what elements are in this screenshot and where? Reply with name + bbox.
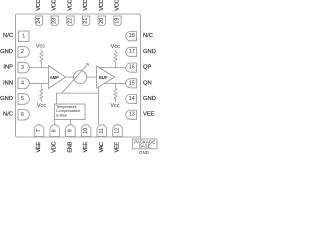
N/C label pin 1	[3, 33, 13, 39]
wire INN pin4 to AMP	[30, 82, 49, 84]
svg-text:GND: GND	[0, 49, 13, 55]
pin 24	[35, 16, 42, 26]
op-amp AMP	[48, 66, 65, 89]
wire QN BUF to pin15	[105, 82, 126, 84]
svg-text:VEE: VEE	[115, 142, 121, 153]
VEE label pin 7	[36, 142, 42, 153]
pin 20	[98, 16, 105, 26]
svg-text:4: 4	[21, 81, 24, 87]
VCC label pin 19	[115, 0, 121, 11]
resistor upper-left	[40, 50, 43, 68]
wire VAC pin11 to BUF	[97, 87, 99, 125]
VCC label pin 20	[99, 0, 105, 11]
pin 1	[19, 31, 30, 42]
svg-text:GND: GND	[143, 96, 156, 102]
svg-text:18: 18	[129, 33, 135, 39]
pin 12	[113, 125, 123, 137]
GND label pin 5	[0, 96, 13, 102]
wire temp box to pin9	[69, 120, 71, 125]
svg-text:VCC: VCC	[67, 0, 73, 11]
VCC label pin 24	[36, 0, 42, 11]
pin 11	[97, 125, 107, 137]
svg-text:VCC: VCC	[99, 0, 105, 11]
VCC label pin 21	[83, 0, 89, 11]
pin 21	[82, 16, 89, 26]
VEE label pin 10	[83, 142, 89, 153]
pin 19	[114, 16, 121, 26]
svg-text:16: 16	[129, 65, 135, 71]
pin 5	[18, 94, 29, 105]
QP label pin 16	[143, 65, 152, 71]
resistor upper-right	[114, 50, 117, 68]
Vcc label upper-left	[36, 44, 46, 50]
GND label pin 14	[143, 96, 156, 102]
VDC label pin 8	[52, 142, 58, 153]
svg-text:N/C: N/C	[3, 112, 13, 118]
pin 9	[66, 125, 76, 137]
pin 22	[67, 16, 74, 26]
svg-text:VEE: VEE	[36, 142, 42, 153]
wire control from temp box up	[57, 93, 99, 104]
svg-text:QN: QN	[143, 80, 152, 86]
svg-text:2: 2	[21, 49, 24, 55]
svg-text:14: 14	[129, 96, 135, 102]
svg-text:15: 15	[129, 80, 135, 86]
svg-text:Vcc: Vcc	[36, 44, 46, 50]
svg-text:GND: GND	[0, 96, 13, 102]
package base box	[133, 139, 158, 149]
svg-text:GND: GND	[139, 150, 149, 155]
pin 6	[18, 109, 29, 120]
svg-text:ENB: ENB	[67, 141, 73, 152]
svg-text:N/C: N/C	[143, 33, 153, 39]
pin 18	[126, 32, 137, 41]
wire temp box to pin8	[54, 120, 56, 125]
svg-text:19: 19	[115, 18, 121, 24]
svg-text:21: 21	[83, 18, 89, 24]
svg-text:VEE: VEE	[143, 112, 155, 118]
svg-text:VCC: VCC	[52, 0, 58, 11]
N/C label pin 18	[143, 33, 153, 39]
svg-text:VCC: VCC	[115, 0, 121, 11]
svg-text:10: 10	[83, 128, 89, 134]
svg-text:VDC: VDC	[52, 142, 58, 153]
GND label pin 2	[0, 49, 13, 55]
Vcc label lower-left	[37, 103, 47, 109]
attenuator circle	[74, 71, 87, 84]
svg-text:Vcc: Vcc	[110, 103, 120, 109]
wire INP pin3 to AMP	[30, 67, 49, 69]
VEE label pin 12	[115, 142, 121, 153]
svg-text:BASE: BASE	[139, 144, 151, 149]
pin 15	[126, 79, 137, 88]
svg-text:Vcc: Vcc	[111, 44, 121, 50]
svg-text:& Bias: & Bias	[56, 113, 67, 117]
ENB label pin 9	[67, 141, 73, 152]
wire AMP to attenuator	[66, 76, 74, 78]
wire attenuator to BUF	[87, 76, 97, 78]
svg-text:24: 24	[36, 18, 42, 24]
svg-text:7: 7	[36, 129, 42, 132]
svg-text:23: 23	[52, 18, 58, 24]
GND label package base	[139, 150, 149, 155]
INN label pin 4	[3, 80, 13, 86]
package outline	[16, 14, 141, 137]
svg-text:VEE: VEE	[83, 142, 89, 153]
svg-text:20: 20	[99, 18, 105, 24]
pin 17	[126, 47, 137, 56]
INP label pin 3	[3, 65, 13, 71]
svg-text:Vcc: Vcc	[37, 103, 47, 109]
resistor lower-right	[114, 83, 117, 102]
svg-text:VAC: VAC	[99, 142, 105, 153]
wire package corner to package base box	[140, 137, 142, 139]
svg-text:VCC: VCC	[83, 0, 89, 11]
pin 14	[126, 94, 137, 103]
QN label pin 15	[143, 80, 152, 86]
svg-text:GND: GND	[143, 49, 156, 55]
pin 2	[18, 47, 29, 58]
svg-text:5: 5	[21, 96, 24, 102]
svg-text:INN: INN	[3, 80, 13, 86]
svg-text:QP: QP	[143, 65, 152, 71]
attenuator arrow	[62, 64, 89, 93]
VCC label pin 23	[52, 0, 58, 11]
pin 3	[18, 62, 29, 73]
pin 10	[81, 125, 91, 137]
svg-text:1: 1	[22, 34, 25, 40]
pin 13	[126, 110, 137, 119]
pin 4	[18, 78, 29, 89]
svg-text:3: 3	[21, 65, 24, 71]
pin 8	[50, 125, 60, 137]
VAC label pin 11	[99, 142, 105, 153]
pin 23	[51, 16, 58, 26]
svg-text:22: 22	[67, 18, 73, 24]
wire QP BUF to pin16	[99, 67, 125, 69]
svg-text:AMP: AMP	[50, 75, 60, 80]
svg-text:12: 12	[115, 128, 121, 134]
resistor lower-left	[40, 83, 43, 102]
GND label pin 17	[143, 49, 156, 55]
N/C label pin 6	[3, 112, 13, 118]
op-amp BUF	[97, 66, 115, 88]
Vcc label lower-right	[110, 103, 120, 109]
VEE label pin 13	[143, 112, 155, 118]
VCC label pin 22	[67, 0, 73, 11]
svg-text:BUF: BUF	[99, 75, 108, 80]
pin 16	[126, 63, 137, 72]
svg-text:N/C: N/C	[3, 33, 13, 39]
svg-text:17: 17	[129, 49, 135, 55]
svg-text:VCC: VCC	[36, 0, 42, 11]
svg-text:11: 11	[99, 128, 105, 134]
svg-text:13: 13	[129, 112, 135, 118]
svg-text:8: 8	[52, 129, 58, 132]
Vcc label upper-right	[111, 44, 121, 50]
svg-text:6: 6	[21, 112, 24, 118]
temperature compensation box U2	[55, 104, 86, 120]
svg-text:INP: INP	[3, 65, 13, 71]
svg-text:9: 9	[67, 129, 73, 132]
pin 7	[34, 125, 44, 137]
